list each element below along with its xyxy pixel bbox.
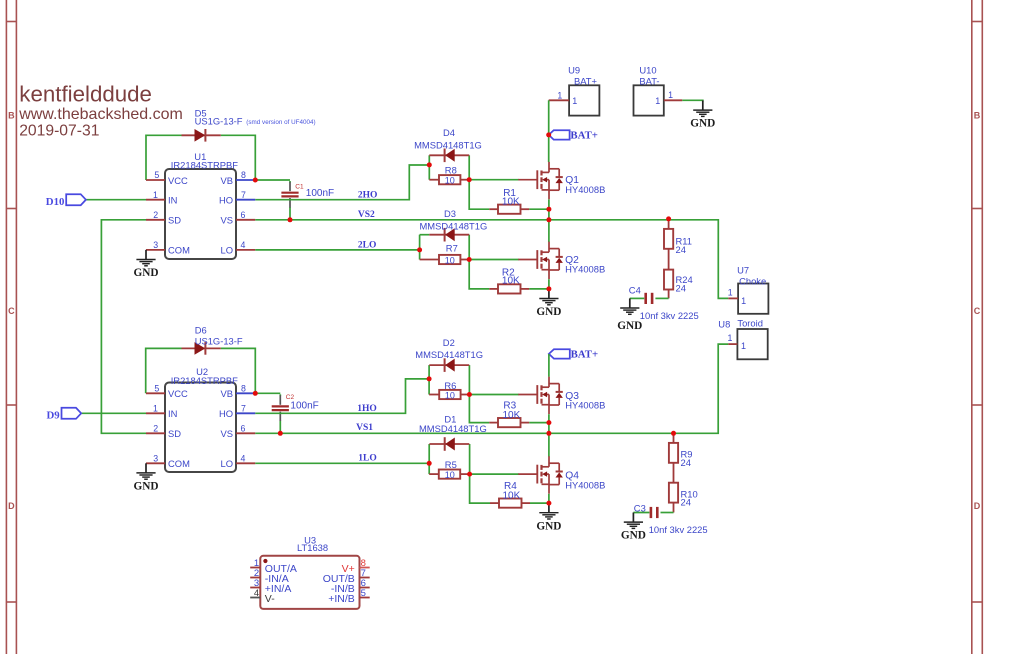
svg-text:GND: GND	[133, 481, 158, 493]
capacitor C4 10nf 3kv	[644, 293, 647, 304]
wire D2/R6 loop	[428, 365, 430, 394]
svg-text:SD: SD	[168, 428, 181, 439]
svg-text:6: 6	[241, 424, 246, 434]
U1 pin 1 IN	[146, 199, 165, 201]
svg-text:GND: GND	[536, 306, 561, 318]
net flag BAT+ upper	[549, 130, 570, 139]
svg-text:100nF: 100nF	[290, 401, 318, 412]
svg-text:VS: VS	[220, 428, 233, 439]
wire down to R2	[469, 260, 489, 289]
svg-text:IR2184STRPBF: IR2184STRPBF	[171, 375, 238, 386]
svg-text:HY4008B: HY4008B	[565, 479, 605, 490]
svg-text:B: B	[8, 111, 15, 121]
transistor Q4 HY4008B	[518, 456, 563, 493]
svg-text:5: 5	[154, 170, 159, 180]
svg-text:BAT+: BAT+	[570, 130, 598, 142]
svg-text:24: 24	[681, 457, 691, 468]
U3 pin 3 +IN/A	[250, 587, 260, 589]
wire D3/R7 loop	[419, 235, 421, 260]
wire D10 to U1.IN	[86, 199, 146, 201]
svg-text:HY4008B: HY4008B	[565, 184, 605, 195]
resistor R24 24	[668, 249, 670, 270]
svg-text:C: C	[974, 306, 981, 316]
svg-text:1: 1	[153, 190, 158, 200]
U3 pin 7 OUT/B	[360, 577, 370, 579]
wire Q1 source down	[548, 199, 550, 242]
svg-text:HY4008B: HY4008B	[565, 400, 605, 411]
svg-text:GND: GND	[536, 520, 561, 532]
svg-text:VCC: VCC	[168, 175, 188, 186]
wire BAT+ rail to Q1 drain	[548, 100, 550, 162]
svg-text:V-: V-	[265, 593, 275, 605]
svg-text:kentfielddude: kentfielddude	[19, 82, 152, 107]
wire R3 to Q3 source node	[529, 422, 549, 424]
svg-text:1: 1	[655, 96, 660, 106]
svg-text:+IN/B: +IN/B	[328, 593, 355, 605]
svg-text:2019-07-31: 2019-07-31	[19, 123, 99, 140]
svg-text:MMSD4148T1G: MMSD4148T1G	[419, 423, 487, 434]
svg-text:3: 3	[153, 454, 158, 464]
wire R2 to Q2 source node	[529, 288, 549, 290]
resistor R2 10K	[489, 288, 498, 290]
ground at U1 COM	[136, 250, 155, 266]
svg-text:24: 24	[676, 283, 686, 294]
wire D9 to U2.IN	[81, 412, 146, 414]
ground at Q2 source	[539, 289, 558, 305]
U1 pin 7 HO	[236, 199, 255, 201]
U2 pin 1 IN	[146, 412, 165, 414]
svg-text:US1G-13-F: US1G-13-F	[195, 116, 243, 127]
svg-text:US1G-13-F: US1G-13-F	[195, 336, 243, 347]
wire R5 to Q4 gate	[470, 473, 519, 475]
svg-text:8: 8	[241, 384, 246, 394]
wire U10 to ground	[682, 100, 703, 101]
svg-text:10: 10	[445, 470, 455, 480]
svg-text:5: 5	[154, 384, 159, 394]
svg-text:24: 24	[681, 497, 691, 508]
svg-text:D3: D3	[444, 208, 456, 219]
svg-text:BAT-: BAT-	[639, 75, 659, 86]
svg-text:10K: 10K	[502, 196, 520, 207]
U3 pin 1 OUT/A	[250, 567, 260, 569]
svg-text:U8: U8	[718, 319, 730, 330]
svg-text:Choke: Choke	[739, 275, 766, 286]
U3 pin 6 -IN/B	[360, 587, 370, 589]
svg-text:D2: D2	[443, 337, 455, 348]
svg-text:7: 7	[241, 404, 246, 414]
wire 2HO net	[255, 165, 429, 200]
svg-text:LT1638: LT1638	[297, 542, 328, 553]
wire Q4 source to ground node	[548, 494, 550, 503]
svg-text:HY4008B: HY4008B	[565, 264, 605, 275]
transistor Q1 HY4008B	[518, 162, 563, 199]
port D10	[66, 194, 86, 205]
connector U7 Choke	[738, 284, 768, 314]
svg-text:IN: IN	[168, 195, 177, 206]
svg-text:3: 3	[153, 240, 158, 250]
svg-text:100nF: 100nF	[306, 188, 334, 199]
wire down to R1	[469, 180, 489, 210]
port D9	[62, 408, 82, 419]
svg-text:R6: R6	[444, 380, 456, 391]
svg-text:LO: LO	[220, 245, 233, 256]
svg-text:IR2184STRPBF: IR2184STRPBF	[171, 159, 238, 170]
svg-text:R7: R7	[446, 243, 458, 254]
svg-text:1: 1	[741, 296, 746, 306]
svg-text:10nf 3kv 2225: 10nf 3kv 2225	[640, 310, 699, 321]
U3 pin 4 V-	[250, 597, 260, 599]
resistor R11 24	[668, 219, 670, 229]
diode D4 MMSD4148T1G	[429, 154, 469, 156]
U1 pin 3 COM	[146, 249, 165, 251]
ground at U2 COM	[136, 463, 155, 479]
U2 pin 2 SD	[146, 432, 165, 434]
wire down to R4	[470, 474, 490, 503]
wire Q2 source to ground node	[548, 279, 550, 289]
wire VB to C1	[255, 179, 290, 181]
svg-text:D6: D6	[195, 325, 207, 336]
svg-text:SD: SD	[168, 215, 181, 226]
svg-text:R5: R5	[445, 459, 457, 470]
ground at Q4 source	[539, 503, 558, 519]
svg-text:HO: HO	[219, 195, 233, 206]
svg-text:D10: D10	[46, 196, 65, 208]
wire BAT+ to Q3 drain	[548, 354, 550, 377]
svg-text:U9: U9	[568, 64, 580, 75]
wire R10 to C3	[661, 512, 674, 514]
svg-text:7: 7	[241, 190, 246, 200]
connector U10 BAT-	[634, 85, 664, 115]
svg-text:24: 24	[676, 244, 686, 255]
wire D4/R8 loop verticals	[428, 155, 430, 179]
svg-text:VCC: VCC	[168, 388, 188, 399]
wire VS1 net	[255, 344, 728, 433]
resistor R1 10K	[489, 208, 498, 210]
wire R24 to C4	[655, 297, 668, 299]
svg-text:U7: U7	[737, 264, 749, 275]
svg-text:BAT+: BAT+	[571, 349, 599, 361]
svg-text:10: 10	[445, 390, 455, 400]
svg-text:GND: GND	[621, 530, 646, 542]
svg-text:U10: U10	[639, 64, 656, 75]
U2 pin 7 HO	[236, 412, 255, 414]
resistor R7 10	[420, 259, 439, 261]
op-amp U3 LT1638	[260, 556, 359, 609]
U2 pin 5 VCC	[146, 392, 165, 394]
diode D3 MMSD4148T1G	[429, 234, 469, 236]
connector U9 BAT+	[569, 85, 599, 115]
svg-text:VB: VB	[220, 388, 233, 399]
svg-text:LO: LO	[220, 458, 233, 469]
svg-text:4: 4	[241, 454, 246, 464]
wire VS2 net	[255, 220, 728, 299]
IC U2 IR2184STRPBF	[165, 383, 236, 473]
diode D6	[182, 347, 221, 349]
svg-text:10: 10	[445, 256, 455, 266]
resistor R6 10	[429, 394, 439, 396]
wire down to R3	[469, 395, 489, 423]
wire R7 to Q2 gate	[469, 259, 519, 261]
wire D1/R5 loop	[428, 444, 430, 474]
svg-text:1: 1	[728, 288, 733, 298]
svg-text:C: C	[8, 306, 15, 316]
svg-text:VS: VS	[220, 215, 233, 226]
resistor R9 24	[673, 433, 675, 443]
svg-text:1: 1	[728, 333, 733, 343]
resistor R10 24	[673, 463, 675, 483]
svg-text:D9: D9	[46, 410, 60, 422]
diode D2 MMSD4148T1G	[429, 364, 469, 366]
svg-text:10K: 10K	[502, 276, 520, 287]
svg-text:1: 1	[741, 341, 746, 351]
transistor Q3 HY4008B	[518, 377, 563, 414]
svg-text:1: 1	[557, 91, 562, 101]
svg-text:2: 2	[153, 210, 158, 220]
svg-text:1: 1	[572, 96, 577, 106]
resistor R8 10	[429, 179, 439, 181]
U2 pin 8 VB	[236, 392, 255, 394]
svg-text:GND: GND	[690, 118, 715, 130]
wire D6 loop	[146, 348, 182, 393]
svg-text:Toroid: Toroid	[737, 317, 763, 328]
svg-text:10: 10	[445, 176, 455, 186]
svg-text:MMSD4148T1G: MMSD4148T1G	[415, 349, 483, 360]
capacitor C3 10nf 3kv	[650, 507, 653, 518]
svg-text:C4: C4	[629, 284, 641, 295]
U3 pin 5 +IN/B	[360, 597, 370, 599]
svg-text:MMSD4148T1G: MMSD4148T1G	[414, 139, 482, 150]
ground at C4	[620, 298, 639, 314]
wire VB to C2	[255, 392, 280, 394]
svg-text:COM: COM	[168, 245, 190, 256]
svg-text:2: 2	[153, 424, 158, 434]
svg-text:D: D	[974, 501, 981, 511]
svg-text:www.thebackshed.com: www.thebackshed.com	[18, 106, 183, 123]
junction dots	[253, 178, 258, 183]
U1 pin 2 SD	[146, 219, 165, 221]
diode D5	[182, 134, 221, 136]
wire R1 to Q1 source node	[529, 208, 549, 210]
wire 2LO net	[255, 249, 419, 251]
U3 pin 8 V+	[360, 567, 370, 569]
svg-text:1HO: 1HO	[357, 404, 377, 414]
svg-text:GND: GND	[617, 320, 642, 332]
wire Q3 source down to VS1	[548, 414, 550, 456]
U2 pin 4 LO	[236, 462, 255, 464]
ground at U10	[693, 101, 712, 117]
svg-text:VS1: VS1	[356, 423, 373, 433]
svg-text:2LO: 2LO	[358, 240, 376, 250]
svg-text:D4: D4	[443, 127, 455, 138]
svg-text:6: 6	[241, 210, 246, 220]
wire 1HO net	[255, 379, 429, 413]
svg-text:D: D	[8, 501, 15, 511]
capacitor C1 100nF	[289, 182, 291, 191]
U2 pin 6 VS	[236, 432, 255, 434]
svg-text:R8: R8	[445, 164, 457, 175]
net flag BAT+ lower	[549, 349, 570, 358]
resistor R4 10K	[490, 502, 499, 504]
svg-text:C1: C1	[295, 184, 304, 191]
resistor R3 10K	[489, 422, 498, 424]
svg-text:5: 5	[361, 588, 366, 599]
wire R6 to Q3 gate	[469, 394, 518, 396]
U1 pin 5 VCC	[146, 179, 165, 181]
svg-text:(smd version of UF4004): (smd version of UF4004)	[246, 119, 315, 126]
svg-text:GND: GND	[133, 267, 158, 279]
connector U8 Toroid	[737, 329, 767, 359]
wire R4 to Q4 source node	[530, 502, 549, 504]
svg-text:8: 8	[241, 170, 246, 180]
U2 pin 3 COM	[146, 462, 165, 464]
svg-text:HO: HO	[219, 408, 233, 419]
svg-text:4: 4	[254, 588, 259, 599]
svg-text:1LO: 1LO	[358, 454, 376, 464]
wire 1LO net	[255, 462, 429, 464]
transistor Q2 HY4008B	[518, 242, 563, 279]
svg-text:IN: IN	[168, 408, 177, 419]
svg-text:C3: C3	[634, 502, 646, 513]
svg-text:B: B	[974, 111, 981, 121]
U1 pin 8 VB	[236, 179, 255, 181]
svg-text:COM: COM	[168, 458, 190, 469]
wire U1.SD to U2.SD	[101, 220, 146, 433]
svg-text:VS2: VS2	[358, 210, 375, 220]
svg-text:10K: 10K	[503, 410, 521, 421]
U1 pin 6 VS	[236, 219, 255, 221]
svg-text:1: 1	[153, 404, 158, 414]
resistor R5 10	[429, 473, 439, 475]
capacitor C2 100nF	[279, 395, 281, 405]
svg-text:2HO: 2HO	[358, 190, 378, 200]
svg-text:MMSD4148T1G: MMSD4148T1G	[420, 220, 488, 231]
svg-text:BAT+: BAT+	[574, 75, 598, 86]
ground at C3	[624, 513, 643, 529]
svg-text:VB: VB	[220, 175, 233, 186]
wire R8 to Q1 gate	[469, 179, 519, 181]
svg-text:1: 1	[668, 90, 673, 100]
svg-text:10K: 10K	[503, 490, 521, 501]
U3 pin 2 -IN/A	[250, 577, 260, 579]
U1 pin 4 LO	[236, 249, 255, 251]
IC U1 IR2184STRPBF	[165, 169, 236, 259]
wire D5 loop	[146, 135, 182, 180]
svg-text:4: 4	[241, 240, 246, 250]
svg-text:10nf 3kv 2225: 10nf 3kv 2225	[649, 524, 708, 535]
diode D1 MMSD4148T1G	[429, 443, 469, 445]
